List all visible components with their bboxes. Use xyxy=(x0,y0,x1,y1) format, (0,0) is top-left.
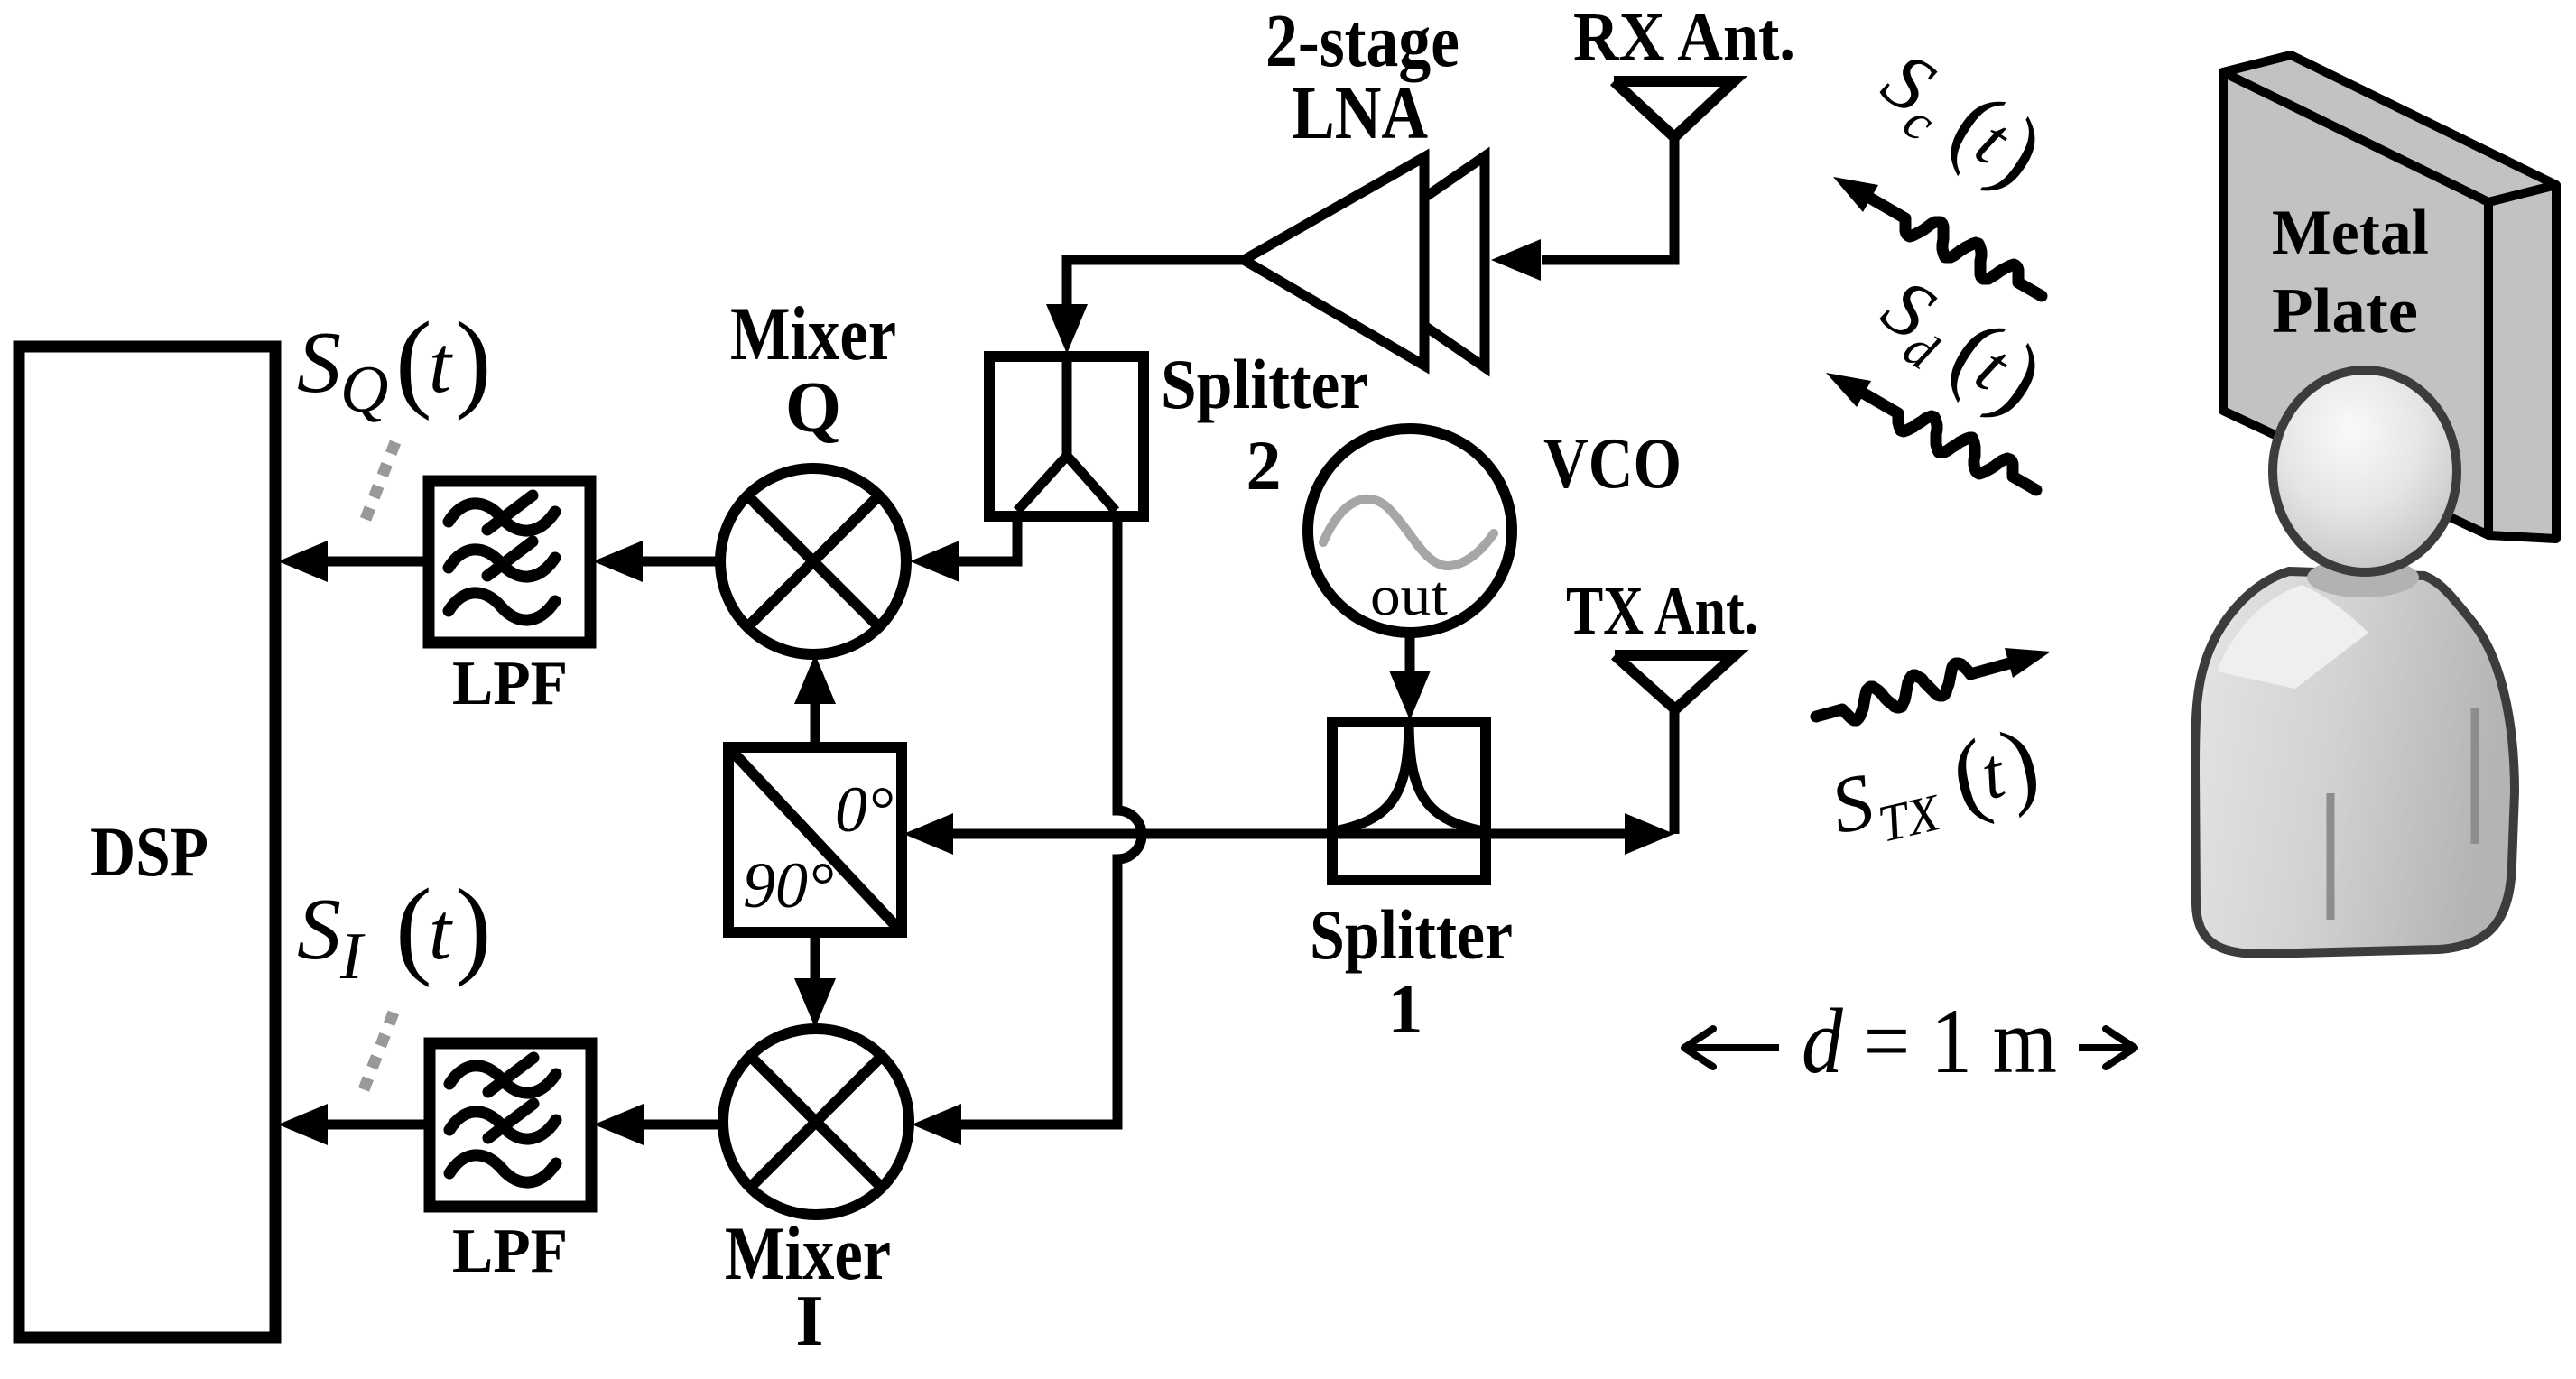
Mixer Q xyxy=(720,292,906,654)
node SQ(t) label xyxy=(297,300,492,427)
wire LNA output to Splitter2 input xyxy=(1046,260,1244,354)
low-pass filter LPF (I channel) xyxy=(430,1043,591,1286)
svg-text:t: t xyxy=(429,887,453,976)
svg-text:RX Ant.: RX Ant. xyxy=(1573,0,1795,75)
node SI(t) label xyxy=(297,866,492,994)
DSP block U1 xyxy=(19,347,275,1337)
svg-text:90°: 90° xyxy=(743,849,834,921)
wire Mixer Q output to LPF-Q xyxy=(593,541,722,582)
svg-text:I: I xyxy=(795,1282,823,1361)
2-stage LNA amplifier stage 1 triangle xyxy=(1244,0,1459,366)
VCO oscillator xyxy=(1308,424,1682,633)
wire Splitter2 right output down with hop over LO line then to Mixer I RF port xyxy=(912,513,1142,1145)
distance marker d = 1 m xyxy=(1684,990,2135,1093)
wire Splitter2 left output to Mixer Q RF port xyxy=(910,513,1017,582)
Sd(t) body-reflected wave arrow xyxy=(1826,373,2036,490)
person torso xyxy=(2195,558,2515,954)
phase shifter 0/90 hybrid xyxy=(728,747,902,932)
svg-text:): ) xyxy=(455,866,492,988)
svg-text:S: S xyxy=(297,881,341,978)
wire Splitter1 left output to phase shifter input xyxy=(903,813,1336,855)
wire LPF-Q output to DSP xyxy=(278,541,429,582)
svg-text:DSP: DSP xyxy=(90,812,208,891)
wire Mixer I output to LPF-I xyxy=(594,1104,725,1145)
person head xyxy=(2273,370,2457,572)
STX(t) label xyxy=(1821,708,2050,863)
svg-text:1: 1 xyxy=(1388,969,1423,1048)
wire phase shifter 90-deg port down to Mixer I LO port xyxy=(794,930,836,1028)
svg-text:out: out xyxy=(1370,566,1448,627)
svg-text:VCO: VCO xyxy=(1543,424,1682,504)
metal plate front face xyxy=(2223,72,2488,535)
2-stage LNA amplifier stage 2 triangle xyxy=(1331,156,1485,367)
svg-text:LNA: LNA xyxy=(1292,71,1428,155)
dashed lead from SI(t) xyxy=(363,1013,394,1092)
svg-text:LPF: LPF xyxy=(452,649,568,718)
dashed lead from SQ(t) xyxy=(365,442,395,522)
wire LPF-I output to DSP xyxy=(278,1104,430,1145)
STX(t) transmitted wave arrow xyxy=(1816,648,2051,720)
RX antenna xyxy=(1573,0,1795,137)
svg-text:Metal: Metal xyxy=(2272,198,2429,268)
wire RX antenna feed to LNA input xyxy=(1491,135,1674,281)
Splitter 1 (curved power divider) xyxy=(1310,722,1513,1048)
svg-text:Splitter: Splitter xyxy=(1161,345,1368,423)
svg-text:): ) xyxy=(455,300,492,421)
svg-text:Q: Q xyxy=(340,353,388,427)
TX antenna xyxy=(1566,573,1758,709)
svg-text:Splitter: Splitter xyxy=(1310,895,1513,974)
metal plate side face xyxy=(2488,185,2556,539)
svg-text:0°: 0° xyxy=(835,773,894,846)
low-pass filter LPF (Q channel) xyxy=(429,481,590,718)
svg-text:d = 1 m: d = 1 m xyxy=(1802,990,2057,1093)
svg-text:t: t xyxy=(429,320,453,410)
Sc(t) clutter wave arrow xyxy=(1833,177,2042,296)
svg-text:2: 2 xyxy=(1246,426,1282,504)
Sd(t) label xyxy=(1861,253,2062,437)
Mixer I xyxy=(723,1029,909,1361)
wire Splitter1 right output to TX antenna feed xyxy=(1482,709,1674,855)
svg-text:(: ( xyxy=(395,300,432,421)
svg-text:TX Ant.: TX Ant. xyxy=(1566,573,1758,649)
wire VCO out port to Splitter1 input xyxy=(1389,632,1431,720)
metal plate top face xyxy=(2223,55,2556,202)
svg-text:(: ( xyxy=(395,866,432,988)
svg-text:LPF: LPF xyxy=(452,1217,568,1286)
wire phase shifter 0-deg port up to Mixer Q LO port xyxy=(794,654,836,750)
svg-text:Mixer: Mixer xyxy=(730,292,896,376)
svg-text:Plate: Plate xyxy=(2272,276,2418,347)
svg-text:I: I xyxy=(339,920,366,994)
svg-text:S: S xyxy=(297,314,341,412)
Sc(t) label xyxy=(1861,26,2062,210)
Splitter 2 (wye power divider) xyxy=(989,345,1368,516)
svg-text:Q: Q xyxy=(785,368,841,448)
